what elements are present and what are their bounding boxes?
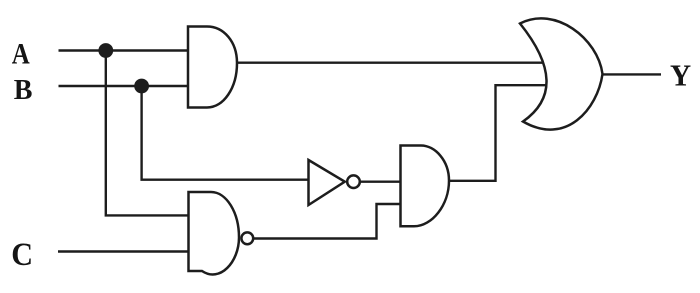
junction dot on B line [134, 79, 149, 94]
NOT gate U3 bubble [347, 175, 360, 188]
svg-text:Y: Y [670, 58, 691, 93]
wire OR output to Y [602, 73, 662, 75]
AND gate U4 (middle) [401, 146, 450, 227]
NAND gate U2 output bubble [241, 232, 253, 244]
wire input C [58, 250, 190, 252]
wire input A [59, 49, 190, 51]
wire NOT output to AND2 input [361, 180, 402, 182]
AND gate U1 (top, inputs A,B) [188, 27, 237, 108]
wire AND2 output up to OR lower input [448, 85, 546, 181]
NOT gate U3 triangle [309, 160, 345, 205]
svg-text:A: A [12, 37, 30, 70]
NAND gate U2 body (bottom, inputs A,C) [189, 192, 240, 274]
wire branch from B to NOT input [142, 86, 310, 180]
svg-text:C: C [11, 237, 33, 273]
wire NAND output step to AND2 lower input [254, 204, 402, 239]
wire branch from A to NAND top input [106, 51, 190, 216]
junction dot on A line [98, 43, 113, 58]
OR gate U5 (output) [520, 18, 603, 129]
svg-text:B: B [14, 74, 33, 106]
wire input B [59, 85, 190, 87]
wire AND1 output to OR top input [236, 62, 544, 64]
